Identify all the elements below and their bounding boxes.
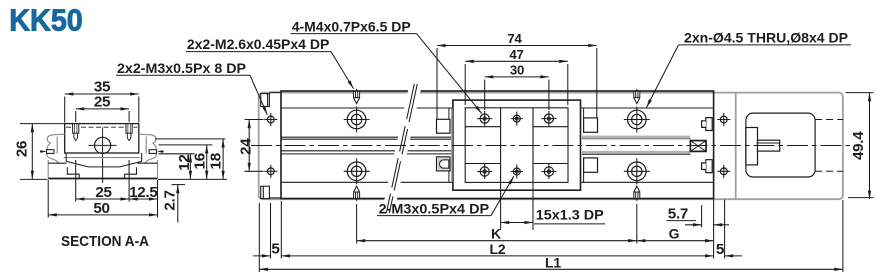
svg-text:5: 5: [716, 241, 725, 258]
svg-text:G: G: [669, 226, 680, 242]
svg-text:SECTION A-A: SECTION A-A: [61, 233, 149, 250]
svg-text:K: K: [491, 226, 501, 242]
svg-text:74: 74: [507, 31, 522, 46]
svg-text:25: 25: [95, 184, 112, 201]
svg-text:16: 16: [191, 153, 208, 169]
svg-text:25: 25: [94, 94, 111, 111]
svg-text:KK50: KK50: [9, 3, 83, 38]
svg-text:5.7: 5.7: [668, 206, 688, 223]
svg-text:47: 47: [509, 47, 523, 62]
svg-text:49.4: 49.4: [850, 131, 867, 160]
svg-text:4-M4x0.7Px6.5 DP: 4-M4x0.7Px6.5 DP: [292, 18, 411, 34]
svg-text:12.5: 12.5: [129, 184, 158, 201]
svg-text:L1: L1: [545, 254, 561, 270]
svg-text:2x2-M3x0.5Px 8 DP: 2x2-M3x0.5Px 8 DP: [117, 60, 246, 76]
svg-text:2x2-M2.6x0.45Px4 DP: 2x2-M2.6x0.45Px4 DP: [187, 36, 329, 52]
svg-text:26: 26: [14, 141, 31, 157]
svg-text:2.7: 2.7: [161, 190, 178, 210]
svg-text:2xn-Ø4.5 THRU,Ø8x4 DP: 2xn-Ø4.5 THRU,Ø8x4 DP: [684, 29, 848, 45]
svg-text:50: 50: [93, 200, 109, 217]
svg-text:5: 5: [271, 241, 280, 258]
svg-text:L2: L2: [490, 241, 506, 257]
svg-text:18: 18: [208, 153, 225, 169]
svg-text:24: 24: [238, 138, 255, 155]
svg-text:30: 30: [510, 63, 524, 78]
svg-text:15x1.3 DP: 15x1.3 DP: [536, 207, 604, 223]
svg-text:2-M3x0.5Px4 DP: 2-M3x0.5Px4 DP: [379, 200, 490, 216]
